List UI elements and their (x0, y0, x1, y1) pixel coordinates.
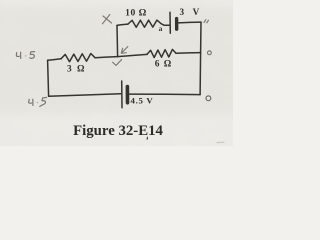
wire top branch left lead (117, 24, 128, 25)
pencil check mark below junction (113, 60, 122, 66)
svg-text:3 V: 3 V (180, 7, 203, 17)
pencil annotation 4.5 lower-left (29, 97, 47, 106)
wire resistor to battery B1 (161, 24, 169, 26)
wire left vertical (48, 60, 49, 96)
pencil arrow at middle junction (121, 47, 128, 54)
svg-text:4.5 V: 4.5 V (131, 96, 154, 106)
wire junction to resistor 6 ohm (118, 54, 147, 56)
caption diacritic under E (146, 137, 149, 140)
battery B2 long plate (121, 81, 123, 108)
svg-text:Figure 32-E14: Figure 32-E14 (73, 123, 163, 139)
resistor 10 ohm zigzag (128, 20, 161, 27)
battery B1 short thick plate (175, 19, 178, 30)
wire right vertical (199, 22, 202, 95)
wire battery B1 to top-right corner (178, 21, 201, 24)
wire bottom branch right segment (129, 93, 200, 96)
battery B1 long plate (169, 12, 171, 33)
pencil node c at bottom-right (206, 96, 211, 101)
battery B2 short thick plate (126, 87, 130, 103)
pencil tick marks at top-right corner (204, 20, 208, 23)
pencil mark x at node above riser (103, 15, 112, 24)
resistor 6 ohm zigzag (147, 49, 176, 57)
svg-text:a: a (159, 24, 163, 33)
pencil smudge bottom-right margin (217, 141, 224, 143)
wire riser from node x to middle branch (116, 25, 119, 56)
wire resistor 3 ohm to junction (95, 57, 118, 58)
paper background (0, 0, 233, 146)
svg-text:3 Ω: 3 Ω (67, 64, 86, 74)
wire middle branch left lead (48, 59, 61, 61)
svg-text:6 Ω: 6 Ω (155, 60, 173, 70)
pencil annotation 4.5 upper-left (16, 52, 34, 59)
pencil node o on right vertical (208, 51, 212, 55)
resistor 3 ohm zigzag (61, 54, 95, 62)
wire resistor 6 ohm to right vertical (176, 52, 201, 55)
svg-text:10 Ω: 10 Ω (125, 8, 147, 19)
wire bottom branch left segment (49, 94, 121, 96)
